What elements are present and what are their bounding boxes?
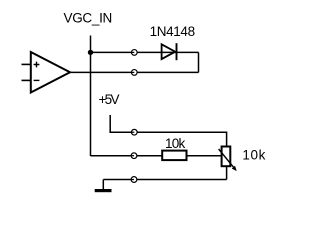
pin circle +5V row	[131, 129, 137, 135]
junction dot	[88, 50, 93, 55]
potentiometer 10k	[219, 147, 237, 171]
wire diode feedback vertical	[198, 52, 200, 72]
diode 1N4148	[162, 43, 177, 60]
svg-text:1N4148: 1N4148	[150, 24, 196, 39]
wire row VGC_IN horizontal	[91, 51, 199, 53]
wire +5V to potentiometer top	[110, 115, 226, 146]
svg-text:VGC_IN: VGC_IN	[64, 11, 113, 26]
wire VGC_IN vertical	[90, 36, 92, 157]
pin circle VGC_IN row	[131, 50, 137, 56]
svg-text:+5V: +5V	[99, 92, 120, 107]
pin circle middle row	[131, 153, 137, 159]
op-amp	[22, 52, 71, 93]
svg-text:10k: 10k	[165, 136, 185, 151]
wire op-amp output row	[70, 71, 199, 73]
pin circle output row	[131, 70, 137, 76]
resistor 10k	[162, 151, 186, 161]
pin circle ground row	[131, 177, 137, 183]
wire ground row to potentiometer bottom	[103, 167, 226, 180]
wire middle row to potentiometer wiper	[91, 155, 221, 157]
ground	[95, 180, 112, 193]
svg-text:10k: 10k	[242, 147, 265, 162]
